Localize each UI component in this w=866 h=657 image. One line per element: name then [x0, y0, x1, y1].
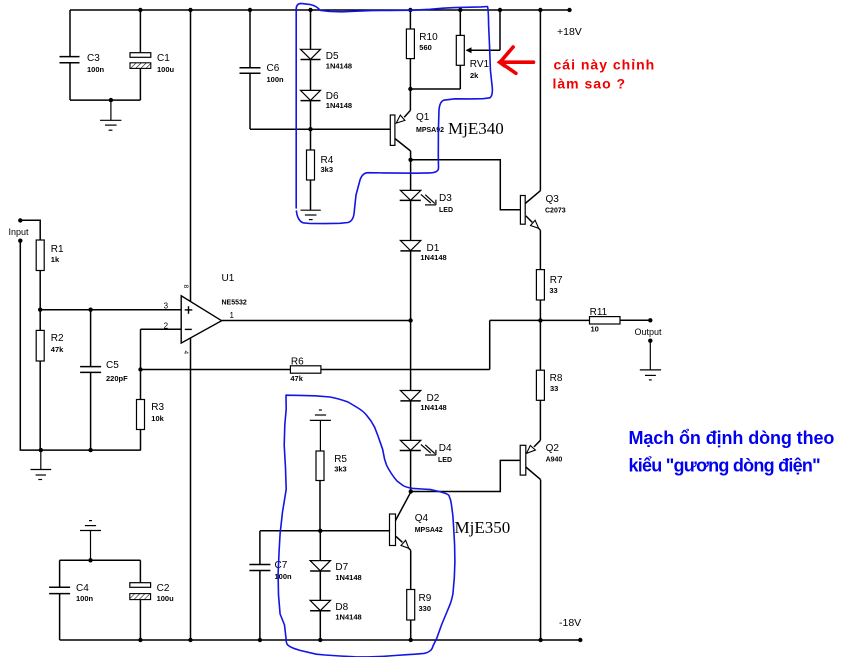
capacitor C6 [240, 10, 285, 129]
transistor Q1 MPSA92 [390, 89, 444, 160]
svg-text:33: 33 [550, 384, 558, 393]
svg-text:NE5532: NE5532 [222, 300, 247, 307]
svg-text:C5: C5 [106, 360, 119, 371]
svg-text:Input: Input [9, 227, 30, 237]
op-amp U1 NE5532 [164, 10, 247, 640]
svg-text:3: 3 [164, 302, 169, 311]
transistor Q3 C2073 [520, 10, 565, 230]
red annotation arrow [500, 47, 534, 73]
svg-text:kiểu "gương dòng điện": kiểu "gương dòng điện" [629, 456, 821, 476]
svg-text:1N4148: 1N4148 [326, 62, 352, 71]
capacitor C5 220pF [80, 310, 128, 450]
svg-text:100n: 100n [76, 594, 94, 603]
svg-text:D3: D3 [439, 193, 452, 204]
node C5 bottom junction [88, 448, 92, 452]
resistor R11 10 [590, 307, 651, 334]
svg-text:RV1: RV1 [470, 59, 490, 70]
resistor R8 33 [536, 320, 562, 440]
svg-text:1: 1 [230, 311, 235, 320]
wire non-inverting input [40, 309, 181, 311]
svg-text:C1: C1 [157, 53, 170, 64]
diode D2 1N4148 [400, 391, 446, 441]
wire +18V top rail [70, 9, 570, 11]
node C3/C1 ground junction [109, 98, 113, 102]
svg-text:C4: C4 [76, 583, 89, 594]
wire D5-D6 [310, 60, 312, 91]
wire D3-D1 [410, 200, 412, 240]
wire C7/R5 node to Q4 base [260, 530, 390, 532]
node R10/RV1/Q1 emitter junction [408, 87, 412, 91]
minus rail symbol above C4/C2 [80, 521, 101, 561]
svg-text:R11: R11 [590, 307, 608, 318]
node C5 top junction [88, 308, 92, 312]
node Input terminal [18, 218, 22, 222]
svg-text:C7: C7 [275, 560, 288, 571]
svg-text:Q4: Q4 [415, 513, 429, 524]
svg-text:560: 560 [419, 43, 432, 52]
svg-text:LED: LED [439, 207, 453, 214]
svg-text:C6: C6 [267, 63, 280, 74]
svg-text:MjE350: MjE350 [455, 518, 511, 537]
node D6/R4 junction [308, 127, 312, 131]
diode D6 1N4148 [301, 90, 353, 129]
svg-text:R3: R3 [151, 402, 164, 413]
LED D3 [400, 160, 453, 214]
svg-text:D7: D7 [335, 562, 348, 573]
ground under input divider [31, 450, 52, 479]
capacitor C1 electrolytic [130, 10, 175, 100]
svg-text:D8: D8 [335, 602, 348, 613]
wire op-amp pin2 input [141, 328, 182, 330]
svg-text:làm sao ?: làm sao ? [553, 76, 627, 92]
minus rail symbol above R5 [310, 410, 331, 451]
svg-text:100n: 100n [87, 65, 105, 74]
svg-text:330: 330 [419, 604, 432, 613]
svg-text:A940: A940 [546, 457, 563, 464]
node R7/R8/R11 junction [538, 318, 542, 322]
wire Q1 collector to Q3 base [411, 160, 521, 210]
node bottom rail junction dots [138, 638, 582, 642]
svg-text:R6: R6 [291, 357, 304, 368]
svg-text:D4: D4 [439, 443, 452, 454]
svg-text:47k: 47k [51, 345, 64, 354]
node top rail junction dots [138, 8, 572, 12]
resistor R2 47k [36, 310, 64, 450]
resistor R4 3k3 [307, 129, 334, 210]
svg-text:1N4148: 1N4148 [420, 403, 446, 412]
wire -18V bottom rail [60, 639, 581, 641]
svg-text:Mạch ổn định dòng theo: Mạch ổn định dòng theo [629, 428, 835, 448]
node R1/R2 junction [38, 308, 42, 312]
svg-text:1N4148: 1N4148 [335, 573, 361, 582]
potentiometer RV1 2k [456, 10, 500, 89]
svg-text:Q1: Q1 [416, 112, 430, 123]
svg-text:R8: R8 [550, 373, 563, 384]
wire C4-C2 top [60, 559, 141, 561]
resistor R1 1k [36, 240, 64, 310]
wire input to R1 [20, 220, 40, 240]
wire R6 riser [489, 320, 491, 369]
ground under R4 [301, 210, 321, 219]
svg-text:LED: LED [438, 457, 452, 464]
wire output node [490, 319, 590, 321]
node output ground terminal [648, 339, 652, 343]
svg-text:1N4148: 1N4148 [420, 253, 446, 262]
node R5/D7/Q4-base junction [318, 529, 322, 533]
diode D7 1N4148 [310, 531, 362, 601]
capacitor C7 100n [249, 531, 292, 640]
svg-text:2k: 2k [470, 71, 479, 80]
svg-text:100u: 100u [157, 594, 175, 603]
svg-text:3k3: 3k3 [334, 465, 347, 474]
node Q4 collector junction [409, 489, 413, 493]
svg-text:+18V: +18V [557, 26, 582, 38]
wire D1 node to D2 [410, 321, 412, 391]
transistor Q2 A940 [520, 440, 562, 640]
diode D8 1N4148 [310, 600, 362, 640]
capacitor C3 [60, 10, 105, 100]
svg-text:1N4148: 1N4148 [326, 101, 352, 110]
svg-text:220pF: 220pF [106, 374, 128, 383]
svg-text:C2073: C2073 [545, 208, 566, 215]
node C4/C2 top junction [88, 558, 92, 562]
svg-text:R1: R1 [51, 244, 64, 255]
diode D5 1N4148 [301, 10, 353, 71]
wire C6 to D6/R4 node to Q1 base [250, 128, 390, 130]
svg-text:MPSA92: MPSA92 [416, 127, 444, 134]
node input ground terminal [18, 239, 22, 243]
resistor R9 330 [407, 590, 432, 641]
LED D4 [400, 440, 452, 491]
svg-text:4: 4 [182, 351, 189, 355]
node Q1 collector junction [408, 158, 412, 162]
blue annotation loop bottom [278, 395, 455, 657]
svg-text:Q2: Q2 [546, 443, 560, 454]
svg-text:-18V: -18V [559, 617, 581, 629]
svg-text:MjE340: MjE340 [448, 119, 504, 138]
svg-text:100n: 100n [275, 572, 293, 581]
diode D1 1N4148 [400, 241, 446, 321]
svg-text:R9: R9 [419, 593, 432, 604]
svg-text:C3: C3 [87, 53, 100, 64]
blue annotation loop top [296, 3, 492, 223]
ground at output [640, 341, 661, 380]
resistor R10 560 [406, 10, 438, 89]
svg-text:8: 8 [182, 285, 189, 289]
resistor R5 3k3 [316, 451, 347, 531]
svg-text:Q3: Q3 [546, 194, 560, 205]
svg-text:10k: 10k [151, 414, 164, 423]
svg-text:U1: U1 [222, 273, 235, 284]
svg-text:cái này chỉnh: cái này chỉnh [554, 57, 656, 73]
node feedback junction [138, 367, 142, 371]
svg-text:33: 33 [549, 286, 557, 295]
wire C3-C1 bottom [70, 99, 140, 101]
resistor R6 47k [290, 357, 489, 384]
resistor R3 10k [137, 370, 165, 451]
node R2 bottom junction [39, 448, 43, 452]
node op-amp output / diode chain junction [408, 318, 412, 322]
svg-text:10: 10 [591, 325, 599, 334]
ground under C1/C3 [100, 100, 121, 130]
svg-text:Output: Output [635, 327, 663, 337]
svg-text:C2: C2 [157, 583, 170, 594]
wire Q4 collector node to Q2 base [411, 460, 520, 491]
svg-text:R2: R2 [51, 333, 64, 344]
capacitor C2 electrolytic [130, 560, 174, 640]
node Output terminal [648, 318, 652, 322]
wire feedback to R6 [141, 369, 291, 371]
svg-text:100n: 100n [267, 75, 285, 84]
resistor R7 33 [536, 230, 563, 320]
svg-text:3k3: 3k3 [321, 165, 334, 174]
wire feedback riser pin2 [140, 329, 142, 369]
transistor Q4 MPSA42 [390, 492, 443, 589]
svg-text:R10: R10 [419, 32, 438, 43]
wire input ground down left side [20, 241, 141, 450]
svg-text:1N4148: 1N4148 [335, 613, 361, 622]
svg-text:R7: R7 [550, 275, 563, 286]
wire R10/RV1 bottom join [410, 88, 460, 90]
svg-text:47k: 47k [290, 374, 303, 383]
capacitor C4 100n [49, 560, 93, 640]
wire op-amp output [222, 320, 411, 322]
svg-text:D5: D5 [326, 51, 339, 62]
svg-text:MPSA42: MPSA42 [415, 527, 443, 534]
svg-text:R5: R5 [334, 454, 347, 465]
svg-text:100u: 100u [157, 65, 175, 74]
svg-text:1k: 1k [51, 255, 60, 264]
